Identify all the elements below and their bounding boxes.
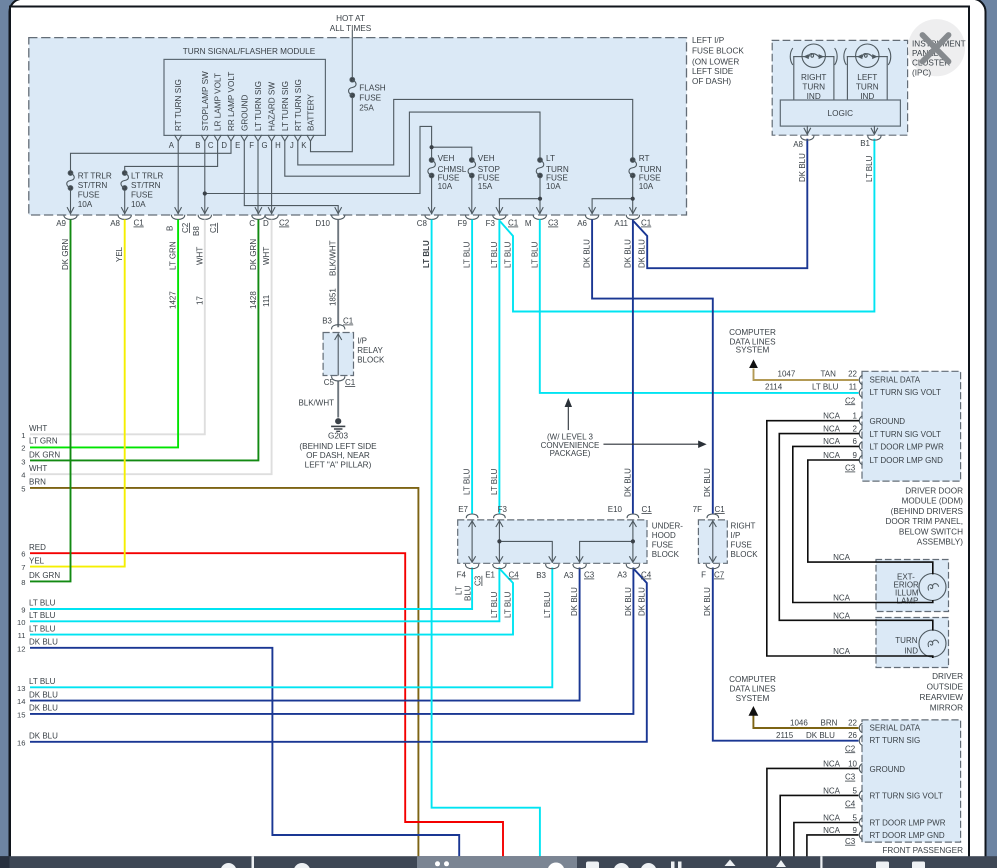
svg-text:LT BLU: LT BLU bbox=[530, 241, 539, 268]
svg-text:B8: B8 bbox=[192, 226, 201, 236]
wire TAN circuit 1047 bbox=[754, 369, 859, 381]
svg-text:OUTSIDE: OUTSIDE bbox=[927, 683, 964, 692]
svg-text:GROUND: GROUND bbox=[870, 765, 906, 774]
svg-text:LT BLU: LT BLU bbox=[490, 591, 499, 618]
lamp left turn indicator bbox=[844, 44, 891, 100]
svg-text:LT GRN: LT GRN bbox=[169, 241, 178, 270]
svg-text:E7: E7 bbox=[458, 505, 468, 514]
wire BLK/WHT relay to G203 bbox=[337, 381, 339, 418]
DDM location text bbox=[886, 487, 964, 547]
wire YEL row 7 bbox=[30, 220, 125, 567]
svg-text:DK BLU: DK BLU bbox=[703, 587, 712, 616]
svg-text:BATTERY: BATTERY bbox=[307, 93, 316, 131]
svg-text:DK BLU: DK BLU bbox=[29, 690, 58, 699]
wire NCA lower pin 5b bbox=[794, 823, 859, 857]
svg-text:NCA: NCA bbox=[833, 553, 851, 562]
svg-text:1: 1 bbox=[853, 412, 858, 421]
pin K bbox=[307, 135, 314, 141]
svg-text:C: C bbox=[249, 219, 255, 228]
wire LT BLU conn M to DDM pin 11 bbox=[540, 220, 859, 393]
turn ind lamp box bbox=[876, 618, 949, 668]
svg-text:RT DOOR LMP GND: RT DOOR LMP GND bbox=[870, 831, 945, 840]
wire NCA DDM pin 2 to turn ind lamp bbox=[779, 434, 933, 630]
svg-text:NCA: NCA bbox=[823, 759, 841, 768]
wire WHT circuit 111 row 4 bbox=[30, 220, 272, 475]
svg-text:DK BLU: DK BLU bbox=[798, 153, 807, 182]
wire pin A to conn B bbox=[177, 141, 179, 214]
wire NCA DDM pin 6 to exterior lamp bbox=[793, 446, 933, 602]
wire NCA DDM pin 1 ground to turn ind lamp bbox=[767, 421, 933, 658]
conn B1 of IPC bbox=[868, 126, 881, 140]
svg-text:LEFT I/P: LEFT I/P bbox=[692, 36, 725, 45]
gray wires bbox=[71, 31, 633, 214]
svg-text:YEL: YEL bbox=[29, 556, 45, 565]
svg-text:A8: A8 bbox=[793, 140, 803, 149]
svg-text:DK BLU: DK BLU bbox=[806, 731, 835, 740]
svg-text:ALL TIMES: ALL TIMES bbox=[330, 24, 372, 33]
svg-text:15: 15 bbox=[17, 710, 25, 719]
svg-text:LT BLU: LT BLU bbox=[463, 241, 472, 268]
svg-text:LT BLU: LT BLU bbox=[29, 599, 56, 608]
wire DK BLU conn A11 to E10 bbox=[632, 220, 634, 514]
svg-text:C1: C1 bbox=[508, 219, 519, 228]
svg-text:7F: 7F bbox=[693, 505, 702, 514]
svg-text:C1: C1 bbox=[715, 505, 726, 514]
svg-text:MODULE (DDM): MODULE (DDM) bbox=[902, 497, 964, 506]
svg-text:1428: 1428 bbox=[249, 291, 258, 309]
svg-text:DK BLU: DK BLU bbox=[29, 638, 58, 647]
svg-text:C2: C2 bbox=[845, 396, 856, 405]
svg-text:SYSTEM: SYSTEM bbox=[736, 694, 770, 703]
svg-text:DK BLU: DK BLU bbox=[624, 587, 633, 616]
wire LT GRN circuit 1427 row 2 bbox=[30, 220, 178, 448]
svg-text:DK BLU: DK BLU bbox=[623, 468, 632, 497]
module pin arrows bbox=[175, 135, 314, 141]
svg-text:SERIAL DATA: SERIAL DATA bbox=[870, 375, 921, 384]
svg-text:K: K bbox=[301, 141, 307, 150]
svg-text:LT DOOR LMP PWR: LT DOOR LMP PWR bbox=[870, 443, 944, 452]
svg-text:B1: B1 bbox=[860, 139, 870, 148]
conn C8 bbox=[425, 208, 438, 220]
svg-text:C1: C1 bbox=[134, 219, 145, 228]
svg-text:C4: C4 bbox=[509, 571, 520, 580]
svg-text:LEFT "A" PILLAR): LEFT "A" PILLAR) bbox=[305, 460, 372, 469]
conn E1 bottom cup bbox=[493, 565, 506, 569]
wire DK BLU row 12 bbox=[30, 648, 459, 857]
wire LT TURN fuse to conn M and F3 bbox=[539, 176, 541, 214]
conn F9 bbox=[466, 208, 479, 220]
svg-text:DK BLU: DK BLU bbox=[583, 239, 592, 268]
svg-text:FUSE: FUSE bbox=[438, 173, 460, 182]
svg-text:RIGHT: RIGHT bbox=[731, 522, 756, 531]
svg-text:B3: B3 bbox=[322, 317, 332, 326]
svg-text:LEFT: LEFT bbox=[857, 73, 877, 82]
right side bbox=[729, 19, 966, 855]
svg-text:TURN SIGNAL/FLASHER MODULE: TURN SIGNAL/FLASHER MODULE bbox=[183, 47, 316, 56]
wire WHT circuit 17 row 1 bbox=[30, 220, 205, 435]
wire pin E to conn D10 bbox=[244, 141, 338, 214]
svg-text:4: 4 bbox=[21, 471, 25, 480]
wire DK BLU conn A6 to 7F bbox=[592, 220, 713, 514]
svg-text:NCA: NCA bbox=[823, 437, 841, 446]
svg-text:FLASH: FLASH bbox=[359, 84, 385, 93]
svg-text:G203: G203 bbox=[328, 432, 348, 441]
svg-text:(BEHIND LEFT SIDE: (BEHIND LEFT SIDE bbox=[299, 442, 377, 451]
svg-text:C2: C2 bbox=[845, 744, 856, 753]
svg-text:NCA: NCA bbox=[833, 611, 851, 620]
svg-text:LT GRN: LT GRN bbox=[29, 437, 58, 446]
wire LT BLU row 9 to F4 bbox=[30, 568, 472, 610]
svg-text:9: 9 bbox=[853, 451, 858, 460]
svg-text:A9: A9 bbox=[56, 219, 66, 228]
svg-text:TURN: TURN bbox=[802, 82, 825, 91]
svg-text:COMPUTER: COMPUTER bbox=[729, 675, 776, 684]
bottom toolbar bbox=[0, 856, 997, 868]
svg-text:LT BLU: LT BLU bbox=[543, 591, 552, 618]
svg-text:BRN: BRN bbox=[821, 718, 838, 727]
svg-text:WHT: WHT bbox=[29, 424, 47, 433]
instrument panel cluster text bbox=[912, 40, 966, 78]
svg-text:NCA: NCA bbox=[823, 412, 841, 421]
wire flash fuse to pin K bbox=[311, 95, 353, 151]
svg-text:FUSE: FUSE bbox=[78, 191, 100, 200]
left terminal rows 1-16 labels and numbers bbox=[17, 424, 60, 747]
svg-text:D: D bbox=[221, 141, 227, 150]
svg-text:A3: A3 bbox=[564, 571, 574, 580]
svg-text:NCA: NCA bbox=[823, 786, 841, 795]
svg-text:VEH: VEH bbox=[438, 154, 455, 163]
wire NCA lower pin 10 bbox=[767, 768, 859, 856]
wire RT TURN fuse to conn A11 and A6 bbox=[632, 176, 634, 214]
svg-text:COMPUTER: COMPUTER bbox=[729, 328, 776, 337]
svg-text:LT TURN SIG: LT TURN SIG bbox=[254, 81, 263, 131]
svg-text:LT: LT bbox=[455, 586, 464, 595]
svg-text:WHT: WHT bbox=[262, 247, 271, 265]
svg-text:C1: C1 bbox=[209, 222, 218, 233]
svg-text:A6: A6 bbox=[577, 219, 587, 228]
wire DK BLU row 14 to A3 bbox=[30, 568, 580, 701]
pin D bbox=[228, 135, 235, 141]
svg-text:RR LAMP VOLT: RR LAMP VOLT bbox=[227, 72, 236, 131]
wire pin B to conn B8 bbox=[204, 141, 206, 214]
svg-text:5: 5 bbox=[853, 814, 858, 823]
conn B bbox=[172, 208, 185, 220]
svg-text:M: M bbox=[525, 219, 532, 228]
svg-text:LT BLU: LT BLU bbox=[504, 241, 513, 268]
wire RT TRLR fuse to conn A9 bbox=[70, 188, 72, 214]
wire DK BLU conn F of right IP block to pin 26 bbox=[713, 568, 859, 741]
svg-text:HOT AT: HOT AT bbox=[336, 14, 365, 23]
svg-text:BLK/WHT: BLK/WHT bbox=[298, 399, 334, 408]
svg-text:C2: C2 bbox=[279, 219, 290, 228]
wire BRN row 5 bbox=[30, 488, 418, 857]
svg-text:FUSE: FUSE bbox=[478, 173, 500, 182]
svg-text:C3: C3 bbox=[845, 837, 856, 846]
svg-text:DOOR TRIM PANEL,: DOOR TRIM PANEL, bbox=[886, 517, 964, 526]
svg-text:C4: C4 bbox=[845, 799, 856, 808]
svg-text:MIRROR: MIRROR bbox=[930, 704, 963, 713]
fuse LT TURN FUSE 10A bbox=[536, 158, 544, 178]
svg-text:UNDER-: UNDER- bbox=[652, 522, 683, 531]
HOT AT ALL TIMES bbox=[330, 14, 372, 33]
wire VEH CHMSL fuse to conn C8 bbox=[431, 176, 433, 214]
svg-text:26: 26 bbox=[848, 731, 857, 740]
svg-text:BELOW SWITCH: BELOW SWITCH bbox=[899, 527, 963, 536]
svg-text:DK GRN: DK GRN bbox=[249, 239, 258, 270]
svg-text:11: 11 bbox=[849, 383, 858, 392]
computer data lines system upper bbox=[729, 328, 776, 368]
svg-text:15A: 15A bbox=[478, 182, 493, 191]
wire LT BLU row 11 to E1 diagonal bbox=[30, 569, 513, 635]
wire NCA lower pin 9 bbox=[807, 835, 859, 857]
svg-text:BLOCK: BLOCK bbox=[731, 550, 759, 559]
wire NCA lower pin 5 bbox=[780, 795, 858, 856]
junction VEH fuse feed node bbox=[430, 145, 434, 149]
svg-text:GROUND: GROUND bbox=[240, 95, 249, 131]
svg-text:LT BLU: LT BLU bbox=[865, 155, 874, 182]
wire LT BLU conn F9 to E7 bbox=[471, 220, 473, 514]
svg-text:NCA: NCA bbox=[823, 814, 841, 823]
svg-text:3: 3 bbox=[21, 457, 25, 466]
conn F3 bbox=[493, 208, 506, 220]
svg-text:1427: 1427 bbox=[169, 291, 178, 309]
svg-text:LT DOOR LMP GND: LT DOOR LMP GND bbox=[870, 456, 944, 465]
svg-text:RIGHT: RIGHT bbox=[801, 73, 826, 82]
svg-text:NCA: NCA bbox=[823, 826, 841, 835]
svg-text:16: 16 bbox=[17, 738, 25, 747]
conn M bbox=[533, 208, 546, 220]
pin F bbox=[255, 135, 262, 141]
svg-text:RT TURN SIG VOLT: RT TURN SIG VOLT bbox=[870, 791, 943, 800]
conn F4 bottom cup bbox=[466, 565, 479, 569]
svg-text:C3: C3 bbox=[474, 575, 483, 586]
svg-text:ST/TRN: ST/TRN bbox=[131, 181, 161, 190]
svg-text:14: 14 bbox=[17, 697, 25, 706]
wire pin C to LT TRLR fuse bbox=[125, 141, 218, 173]
svg-text:J: J bbox=[290, 141, 294, 150]
svg-text:A3: A3 bbox=[617, 571, 627, 580]
svg-text:LT BLU: LT BLU bbox=[29, 677, 56, 686]
svg-text:1046: 1046 bbox=[790, 718, 808, 727]
svg-text:1: 1 bbox=[21, 431, 25, 440]
svg-text:2: 2 bbox=[853, 424, 858, 433]
wire DK GRN circuit 1428 row 3 bbox=[30, 220, 258, 461]
svg-text:10A: 10A bbox=[78, 200, 93, 209]
close button circle bbox=[908, 19, 965, 76]
svg-text:TURN: TURN bbox=[856, 82, 879, 91]
instrument panel cluster IPC box bbox=[772, 40, 907, 149]
wire DK GRN row 8 bbox=[30, 220, 71, 582]
internal bus F3 to B3 bbox=[499, 541, 552, 562]
wire LT BLU conn F3 to underhood F3 bbox=[498, 220, 500, 514]
svg-text:1047: 1047 bbox=[778, 370, 796, 379]
wire LT BLU row 10 to E1 bbox=[30, 568, 499, 622]
front passenger door module box bbox=[776, 718, 963, 855]
svg-text:LT BLU: LT BLU bbox=[504, 591, 513, 618]
svg-text:SYSTEM: SYSTEM bbox=[736, 346, 770, 355]
close button X bbox=[923, 35, 949, 62]
svg-text:10A: 10A bbox=[546, 182, 561, 191]
wire pin D to RT TRLR fuse bbox=[71, 141, 232, 173]
svg-text:(BEHIND DRIVERS: (BEHIND DRIVERS bbox=[891, 507, 964, 516]
conn A3 bottom cup bbox=[573, 565, 586, 569]
svg-text:F4: F4 bbox=[457, 571, 467, 580]
svg-text:BLOCK: BLOCK bbox=[357, 356, 385, 365]
wire DK BLU row 16 to A3 diagonal bbox=[30, 569, 647, 742]
svg-text:D: D bbox=[263, 219, 269, 228]
svg-text:LT TRLR: LT TRLR bbox=[131, 172, 163, 181]
I/P relay block bbox=[322, 317, 385, 388]
svg-text:LT BLU: LT BLU bbox=[463, 468, 472, 495]
svg-text:RED: RED bbox=[29, 543, 46, 552]
conn F3 top cup bbox=[494, 514, 506, 518]
svg-text:HAZARD SW: HAZARD SW bbox=[268, 82, 277, 131]
svg-text:DK BLU: DK BLU bbox=[623, 239, 632, 268]
pin A bbox=[175, 135, 182, 141]
wire BLK/WHT circuit 1851 D10 to relay bbox=[337, 220, 339, 328]
svg-text:E: E bbox=[235, 141, 240, 150]
conn A8 bbox=[118, 208, 131, 220]
wire BRN circuit 1046 bbox=[753, 715, 858, 729]
LEFT I/P fuse block dashed box bbox=[29, 38, 687, 215]
svg-text:D10: D10 bbox=[315, 219, 330, 228]
svg-text:I/P: I/P bbox=[357, 337, 367, 346]
svg-text:BLK/WHT: BLK/WHT bbox=[329, 240, 338, 276]
pin brackets bbox=[859, 376, 862, 465]
svg-text:A11: A11 bbox=[614, 219, 628, 228]
wire LT TRLR fuse to conn A8 bbox=[124, 188, 126, 214]
svg-text:FUSE: FUSE bbox=[359, 94, 381, 103]
conn E10 top cup bbox=[627, 514, 639, 518]
svg-text:LT BLU: LT BLU bbox=[29, 611, 56, 620]
svg-text:RT TURN SIG: RT TURN SIG bbox=[174, 79, 183, 131]
svg-text:BLU: BLU bbox=[464, 585, 473, 601]
wire LT BLU row 13 to B3 bbox=[30, 568, 552, 688]
fuse VEH CHMSL FUSE 10A bbox=[428, 158, 436, 178]
svg-text:F3: F3 bbox=[498, 505, 508, 514]
fuse FLASH FUSE 25A bbox=[349, 77, 357, 97]
svg-text:10A: 10A bbox=[639, 182, 654, 191]
wire RED row 6 bbox=[30, 553, 503, 856]
svg-text:6: 6 bbox=[21, 550, 25, 559]
svg-text:HOOD: HOOD bbox=[652, 531, 676, 540]
svg-text:E10: E10 bbox=[608, 505, 623, 514]
wire branch to VEH STOP fuse bbox=[432, 147, 472, 160]
conn C bbox=[252, 208, 265, 220]
driver door module DDM box bbox=[765, 370, 961, 481]
junction stoplamp feed node bbox=[203, 191, 207, 195]
fuse VEH STOP FUSE 15A bbox=[468, 158, 476, 178]
wire DK BLU row 15 to A3 bbox=[30, 568, 633, 714]
svg-text:5: 5 bbox=[21, 484, 25, 493]
svg-text:NCA: NCA bbox=[823, 451, 841, 460]
svg-text:GROUND: GROUND bbox=[870, 417, 906, 426]
wire hot feed to flash fuse bbox=[351, 31, 353, 80]
fuse LT TRLR ST/TRN FUSE 10A bbox=[121, 171, 129, 191]
svg-text:(ON LOWER: (ON LOWER bbox=[692, 58, 739, 67]
svg-text:C3: C3 bbox=[548, 219, 559, 228]
exterior illum lamp box bbox=[876, 560, 949, 612]
wire pin H to LT TURN fuse bbox=[285, 112, 540, 176]
svg-text:I/P: I/P bbox=[731, 531, 741, 540]
NCA labels near mirror bbox=[833, 553, 851, 656]
svg-text:25A: 25A bbox=[359, 104, 374, 113]
colored wires group bbox=[30, 139, 874, 857]
svg-text:LT BLU: LT BLU bbox=[422, 240, 431, 268]
svg-text:LT TURN SIG VOLT: LT TURN SIG VOLT bbox=[870, 388, 942, 397]
fuse labels bbox=[78, 84, 662, 210]
svg-text:DK BLU: DK BLU bbox=[29, 704, 58, 713]
svg-text:B: B bbox=[195, 141, 200, 150]
conn A8 of IPC bbox=[801, 126, 814, 140]
fuse RT TURN FUSE 10A bbox=[629, 158, 637, 178]
svg-text:FUSE: FUSE bbox=[131, 191, 153, 200]
pin J bbox=[294, 135, 301, 141]
lamp right turn indicator bbox=[790, 44, 837, 100]
svg-text:10A: 10A bbox=[131, 200, 146, 209]
svg-text:2115: 2115 bbox=[776, 731, 794, 740]
svg-text:B3: B3 bbox=[536, 571, 546, 580]
wire color labels bbox=[17, 153, 874, 747]
svg-text:FRONT PASSENGER: FRONT PASSENGER bbox=[882, 846, 963, 855]
svg-text:LEFT SIDE: LEFT SIDE bbox=[692, 67, 734, 76]
svg-text:VEH: VEH bbox=[478, 154, 495, 163]
conn B8 bbox=[198, 208, 211, 220]
svg-text:FUSE: FUSE bbox=[639, 173, 661, 182]
wire pin G to conn D bbox=[271, 141, 273, 214]
svg-text:10: 10 bbox=[848, 759, 857, 768]
wire NCA DDM pin 9 to exterior lamp bbox=[808, 460, 933, 574]
svg-text:DK GRN: DK GRN bbox=[61, 239, 70, 270]
svg-text:7: 7 bbox=[21, 563, 25, 572]
junction LT TURN fuse output node bbox=[538, 197, 542, 201]
wire VEH STOP fuse to conn F9 bbox=[471, 176, 473, 214]
svg-text:FUSE: FUSE bbox=[546, 173, 568, 182]
conn A6 bbox=[586, 208, 599, 220]
svg-text:DATA LINES: DATA LINES bbox=[729, 685, 776, 694]
svg-text:DRIVER: DRIVER bbox=[932, 672, 963, 681]
svg-text:G: G bbox=[262, 141, 268, 150]
svg-text:6: 6 bbox=[853, 437, 858, 446]
conn D bbox=[265, 208, 278, 220]
svg-text:RT TRLR: RT TRLR bbox=[78, 172, 112, 181]
internal verticals with arrows bbox=[471, 521, 473, 562]
svg-text:IND: IND bbox=[904, 647, 918, 656]
module pin letters A-K bbox=[169, 141, 308, 150]
wire LT BLU conn F3 diagonal to IPC B1 bbox=[500, 139, 875, 312]
svg-text:C3: C3 bbox=[584, 571, 595, 580]
pin E bbox=[241, 135, 248, 141]
svg-text:C1: C1 bbox=[642, 505, 653, 514]
svg-text:PACKAGE): PACKAGE) bbox=[550, 449, 591, 458]
svg-text:C1: C1 bbox=[641, 219, 652, 228]
svg-text:C8: C8 bbox=[417, 219, 428, 228]
pin H bbox=[281, 135, 288, 141]
svg-text:DK BLU: DK BLU bbox=[637, 587, 646, 616]
svg-text:TURN: TURN bbox=[895, 636, 917, 645]
wire pin J to RT TURN fuse bbox=[298, 99, 633, 164]
svg-text:C5: C5 bbox=[324, 378, 335, 387]
middle components bbox=[298, 317, 758, 587]
svg-text:DK BLU: DK BLU bbox=[570, 587, 579, 616]
svg-text:9: 9 bbox=[853, 826, 858, 835]
svg-text:22: 22 bbox=[848, 718, 857, 727]
svg-text:RT DOOR LMP PWR: RT DOOR LMP PWR bbox=[870, 819, 946, 828]
logic box bbox=[780, 100, 900, 126]
svg-text:F9: F9 bbox=[458, 219, 468, 228]
svg-text:OF DASH, NEAR: OF DASH, NEAR bbox=[306, 451, 370, 460]
svg-text:12: 12 bbox=[17, 644, 25, 653]
